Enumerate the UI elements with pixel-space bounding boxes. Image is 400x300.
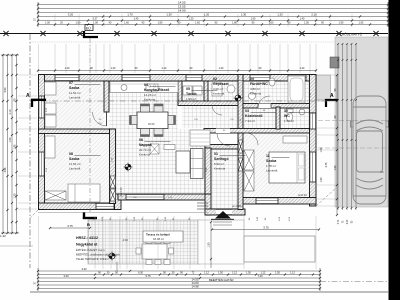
svg-text:1.20: 1.20 <box>65 67 70 70</box>
svg-text:14.98: 14.98 <box>192 284 199 288</box>
fence post x=339 <box>336 31 341 36</box>
svg-text:7.34 m²: 7.34 m² <box>245 119 255 123</box>
armchair living xbox <box>150 144 159 154</box>
top dim line5 ticks/numbers <box>87 19 89 21</box>
dining chairs top <box>141 104 150 112</box>
svg-text:1.78 m²: 1.78 m² <box>266 164 276 168</box>
svg-text:1.50: 1.50 <box>13 193 16 198</box>
fence post x=302 <box>299 31 304 36</box>
floor bath tiles <box>243 81 309 103</box>
svg-text:1.32: 1.32 <box>0 234 6 238</box>
svg-text:1.30: 1.30 <box>241 12 247 16</box>
svg-text:±0.00: ±0.00 <box>148 122 155 126</box>
extension lines bottom yard <box>38 216 40 269</box>
window top wall bath2 <box>288 75 306 82</box>
window bottom wall room08 <box>96 203 114 210</box>
front patio outline rect <box>244 236 315 262</box>
svg-text:Kerámia: Kerámia <box>139 153 151 157</box>
svg-text:1.00: 1.00 <box>93 21 98 24</box>
svg-text:3.75: 3.75 <box>325 162 328 167</box>
svg-text:1.30: 1.30 <box>166 12 172 16</box>
wall room07/room08 horizontal <box>39 129 110 134</box>
svg-text:Terasz és belépő: Terasz és belépő <box>146 233 170 237</box>
svg-text:5.60: 5.60 <box>4 87 7 92</box>
svg-text:3.06 m²: 3.06 m² <box>213 87 223 91</box>
left dimension vertical lines <box>2 55 4 233</box>
svg-text:pm0.00: pm0.00 <box>298 193 307 197</box>
wall room08/living vertical with insulation <box>110 129 116 204</box>
svg-text:3.20: 3.20 <box>68 12 74 16</box>
svg-text:11.52 m²: 11.52 m² <box>69 91 81 95</box>
sofa living <box>191 149 204 179</box>
svg-text:5.27: 5.27 <box>93 17 98 20</box>
window living terrace door <box>126 194 164 200</box>
bath wc toilet <box>269 78 275 86</box>
wall under taroio+gepeszet horizontal <box>178 101 242 106</box>
eave line below bottom wall <box>38 212 208 214</box>
svg-text:1.50 m²: 1.50 m² <box>284 119 294 123</box>
driveway dim chains verticals <box>337 44 339 210</box>
window top wall bath <box>250 75 270 82</box>
svg-text:2.10: 2.10 <box>9 109 12 114</box>
svg-text:1.90: 1.90 <box>339 21 344 24</box>
svg-text:-0.02: -0.02 <box>122 238 128 242</box>
terrace table <box>142 244 167 259</box>
dining chair right <box>168 116 176 125</box>
wardrobe room08 xbox <box>45 191 66 200</box>
boiler gepeszet <box>212 83 222 96</box>
floor corridor tiles <box>182 105 309 128</box>
floor living tiles <box>115 129 205 194</box>
window left wall room08 <box>39 152 45 176</box>
benchmark circle room08 <box>125 164 131 170</box>
wall pier bottom step <box>115 194 122 210</box>
svg-text:4.80 m²: 4.80 m² <box>250 87 260 91</box>
svg-text:1.40: 1.40 <box>134 17 139 20</box>
svg-text:1.20: 1.20 <box>111 67 116 70</box>
svg-text:A: A <box>330 93 334 99</box>
wall szelfogo top horizontal <box>205 145 238 150</box>
wall szelfogo/room11 vertical <box>238 133 243 210</box>
dim line left terrace 3.75 <box>50 227 90 229</box>
vert dim at walkway <box>210 222 212 268</box>
extension lines top yard <box>38 44 40 73</box>
svg-text:06: 06 <box>139 138 143 142</box>
wc toilet <box>286 109 293 113</box>
fence post x=117 <box>114 31 119 36</box>
top dim line4 ticks/numbers <box>102 15 104 17</box>
svg-text:Laminált: Laminált <box>69 96 81 100</box>
bottom road line <box>30 291 388 293</box>
bath sink <box>249 93 256 100</box>
window left wall room07 <box>39 96 45 118</box>
svg-text:3.66: 3.66 <box>4 167 7 172</box>
svg-text:20.70 m²: 20.70 m² <box>139 148 151 152</box>
diagonal dashed left corner <box>30 210 38 218</box>
floor room 08 parquet <box>45 134 110 204</box>
svg-text:WC: WC <box>284 114 290 118</box>
svg-text:HRSZ.: 431/2: HRSZ.: 431/2 <box>76 236 98 240</box>
wall exterior top <box>39 75 317 82</box>
entry door opening <box>216 209 232 215</box>
dotted extension line below fence <box>30 41 335 43</box>
section line B-B dashdot <box>89 38 91 212</box>
kitchen counter <box>110 82 178 93</box>
leader line from text <box>116 262 118 271</box>
svg-text:1.40: 1.40 <box>300 17 305 20</box>
wall exterior bottom left <box>39 203 121 210</box>
svg-text:05: 05 <box>186 87 190 91</box>
fence post x=228 <box>225 31 230 36</box>
kitchen stove <box>146 84 158 91</box>
svg-text:Nappali: Nappali <box>139 143 152 147</box>
coffee table living <box>176 151 190 173</box>
svg-text:Konyha-Étkező: Konyha-Étkező <box>144 87 169 92</box>
wall corridor/wc vertical <box>276 107 280 129</box>
svg-text:1.00: 1.00 <box>45 21 50 24</box>
closet room11 xboxes <box>244 150 254 170</box>
wall living front <box>118 194 208 200</box>
floor szelfogo tiles <box>211 148 238 209</box>
xbox insulation room11wall a <box>238 140 243 153</box>
svg-text:1.12: 1.12 <box>290 271 295 274</box>
svg-text:07: 07 <box>69 81 73 85</box>
kitchen island block <box>190 130 210 146</box>
svg-text:Tároló: Tároló <box>186 92 197 96</box>
window top wall room07 <box>55 75 79 82</box>
svg-text:2.10: 2.10 <box>311 12 317 16</box>
desk room07 <box>45 82 57 95</box>
top dim left terminator <box>37 2 39 27</box>
door arc corridor-szelfogo <box>217 133 230 146</box>
wardrobe room07 <box>45 115 56 127</box>
svg-text:1.50: 1.50 <box>275 271 280 274</box>
wall living/szelfogo vertical upper <box>205 148 211 194</box>
dining chairs bottom <box>141 129 150 137</box>
svg-text:Laminált: Laminált <box>69 167 81 171</box>
fence post x=265 <box>262 31 267 36</box>
svg-text:Kerámia: Kerámia <box>250 92 262 96</box>
svg-text:Fürdő+WC: Fürdő+WC <box>250 82 268 86</box>
svg-text:11.52 m²: 11.52 m² <box>69 162 81 166</box>
svg-text:5.75: 5.75 <box>145 274 151 278</box>
svg-text:10: 10 <box>284 109 288 113</box>
svg-text:Szoba: Szoba <box>266 159 276 163</box>
svg-text:1.80: 1.80 <box>158 21 163 24</box>
svg-text:1.20: 1.20 <box>219 67 224 70</box>
xbox insulation wall08 a <box>110 176 116 188</box>
svg-text:Szoba: Szoba <box>69 86 79 90</box>
washer dryer taroio <box>183 86 192 95</box>
svg-text:2.20: 2.20 <box>347 219 349 224</box>
extension lines left yard <box>18 74 37 76</box>
svg-text:1.50: 1.50 <box>320 177 323 182</box>
bottom dim numbers line2 <box>94 273 96 275</box>
window top wall kitchen <box>122 75 150 82</box>
heat pump unit <box>330 57 339 68</box>
svg-text:Szélfogó: Szélfogó <box>214 157 229 161</box>
fence post x=6 <box>3 31 8 36</box>
svg-text:08: 08 <box>69 152 73 156</box>
wall bath/corridor horizontal <box>243 104 310 109</box>
bottom dim numbers line3 <box>94 277 96 279</box>
svg-text:1.50: 1.50 <box>304 21 309 24</box>
wall szelfogo bottom with entry <box>205 209 245 215</box>
svg-text:1.20: 1.20 <box>277 12 283 16</box>
door arc bath <box>258 96 270 108</box>
bottom dashdot extension <box>320 281 388 283</box>
svg-text:Közlekedő: Közlekedő <box>245 114 263 118</box>
top dim line5 extra ticks <box>121 19 123 21</box>
wall corridor/south horizontal <box>204 129 310 134</box>
fence line with x marks <box>0 33 388 35</box>
svg-text:3.75: 3.75 <box>67 224 73 228</box>
wall room07/kitchen vertical <box>104 81 109 112</box>
window right wall wc <box>310 113 317 129</box>
dining chair left <box>130 116 138 125</box>
terrace label box <box>143 231 183 242</box>
wc sink <box>299 109 305 115</box>
extension lines top stack <box>54 14 56 27</box>
section line A-A dashdot <box>30 100 330 102</box>
section marker A left <box>32 100 46 107</box>
svg-text:Laminált: Laminált <box>266 169 278 173</box>
wall exterior bottom right <box>243 198 316 205</box>
svg-text:TELEK TERÜLETE: 1034m²: TELEK TERÜLETE: 1034m² <box>76 257 109 261</box>
window bottom wall room11 <box>256 198 278 205</box>
svg-text:HŐSZIVATYÚ: HŐSZIVATYÚ <box>342 32 363 37</box>
car top view <box>351 96 389 204</box>
fence post x=376 <box>373 31 378 36</box>
svg-text:pm 0.00: pm 0.00 <box>119 187 123 197</box>
floor taroio tiles <box>182 85 204 101</box>
svg-text:Kerámia: Kerámia <box>213 92 225 96</box>
section marker B top <box>84 31 98 37</box>
wall szelfogo left lower <box>205 194 211 215</box>
benchmark circle corridor <box>235 95 241 101</box>
svg-text:1.50: 1.50 <box>246 271 251 274</box>
right dim chain x337 <box>336 75 338 215</box>
svg-text:3.20: 3.20 <box>63 274 69 278</box>
svg-text:1.30: 1.30 <box>189 17 194 20</box>
svg-text:14.26 m²: 14.26 m² <box>144 93 156 97</box>
svg-text:1.50: 1.50 <box>334 165 337 170</box>
window right wall room11 <box>310 152 317 182</box>
svg-text:1.20: 1.20 <box>300 67 305 70</box>
desk room08 <box>45 136 55 158</box>
terrace tile grid <box>88 220 200 264</box>
yard line left <box>0 245 33 247</box>
bottom dim numbers line1 <box>129 270 131 272</box>
section marker B bottom <box>83 212 85 219</box>
heat pump pad gray <box>316 75 331 100</box>
wardrobe room11 top <box>283 136 307 143</box>
dim line above top wall <box>38 70 316 72</box>
wall taroio/gepeszet vertical <box>204 81 208 101</box>
svg-text:04: 04 <box>144 83 148 87</box>
svg-text:1.60: 1.60 <box>269 21 274 24</box>
svg-text:1.50: 1.50 <box>208 242 211 247</box>
bottom dimension lines <box>38 270 320 272</box>
section marker A right <box>326 100 338 107</box>
door gap corridor-szelfogo <box>216 129 230 134</box>
svg-text:B: B <box>87 222 90 227</box>
door arc gepeszet <box>212 105 222 115</box>
benchmark circle terrace <box>109 253 115 259</box>
svg-text:2.10: 2.10 <box>162 67 167 70</box>
floor gepeszet tiles <box>210 81 238 101</box>
svg-text:1.60: 1.60 <box>251 17 256 20</box>
fence post x=191 <box>188 31 193 36</box>
wall exterior left <box>39 75 45 210</box>
gas meter box <box>85 25 93 31</box>
top dimension lines <box>38 4 388 6</box>
svg-text:Szoba: Szoba <box>69 157 79 161</box>
floor room 11 parquet <box>243 133 309 198</box>
door gap bath <box>258 104 271 109</box>
driveway crossline dashed upper <box>318 120 390 122</box>
svg-text:1.80: 1.80 <box>232 21 237 24</box>
svg-text:1.12: 1.12 <box>204 271 209 274</box>
floor room 07 parquet <box>45 81 105 129</box>
svg-text:01: 01 <box>214 152 218 156</box>
wall kitchen/taroio vertical <box>178 81 182 105</box>
svg-text:Gépészet: Gépészet <box>213 82 229 86</box>
dining table <box>137 112 168 129</box>
svg-text:1.05: 1.05 <box>359 21 364 24</box>
roof overhang diagonal dashed <box>316 188 336 206</box>
bed room08 <box>68 184 100 202</box>
svg-text:03: 03 <box>245 109 249 113</box>
svg-text:4.32: 4.32 <box>81 267 87 271</box>
svg-text:1.70: 1.70 <box>127 12 133 16</box>
svg-text:1.60: 1.60 <box>195 21 200 24</box>
bed room11 <box>269 152 305 183</box>
svg-text:Kerámia: Kerámia <box>214 167 226 171</box>
wall exterior right <box>310 75 317 207</box>
svg-text:1.50: 1.50 <box>9 137 12 142</box>
svg-text:5.90 m²: 5.90 m² <box>214 162 224 166</box>
svg-text:09: 09 <box>250 77 254 81</box>
wall gepeszet/bath vertical <box>238 75 243 132</box>
property dashed line left vertical <box>29 34 31 268</box>
xbox insulation wall08 b <box>110 189 116 201</box>
bathtub <box>288 76 305 103</box>
kitchen sink <box>121 85 127 91</box>
svg-text:pm 0.00: pm 0.00 <box>232 204 242 208</box>
floor kitchen tiles <box>109 81 178 129</box>
door arc room11 <box>246 133 258 145</box>
extension lines right yard <box>317 74 336 76</box>
svg-text:1.60: 1.60 <box>124 21 129 24</box>
svg-text:7.20: 7.20 <box>257 274 263 278</box>
window top wall taroio <box>186 75 202 82</box>
steps living to szelfogo <box>197 202 208 204</box>
svg-text:BEÉPÍTÉSI HATÁR: BEÉPÍTÉSI HATÁR <box>209 277 234 282</box>
svg-text:EÜ: EÜ <box>86 26 91 30</box>
svg-text:02: 02 <box>213 77 217 81</box>
svg-text:1.80: 1.80 <box>76 21 81 24</box>
svg-text:1.50: 1.50 <box>320 147 323 152</box>
driveway centerline dashed <box>318 147 390 149</box>
svg-text:3.70: 3.70 <box>338 219 340 224</box>
fence post x=80 <box>77 31 82 36</box>
dim line terrace 3.75 <box>212 229 319 231</box>
walkway white rect <box>198 220 244 264</box>
black scan border right <box>389 0 400 300</box>
svg-text:1.20: 1.20 <box>204 12 210 16</box>
entrance steps <box>213 221 232 223</box>
terrace chairs <box>146 239 152 244</box>
svg-text:6.30: 6.30 <box>138 271 143 274</box>
svg-text:3.75: 3.75 <box>263 225 269 229</box>
fence post x=154 <box>151 31 156 36</box>
svg-text:90: 90 <box>13 98 16 101</box>
top dim line6 ticks/numbers <box>54 23 56 25</box>
svg-text:Kerámia: Kerámia <box>144 98 156 102</box>
svg-text:14.00: 14.00 <box>178 9 186 13</box>
fence post x=43 <box>40 31 45 36</box>
entrance triangle <box>215 211 231 219</box>
driveway gray area <box>335 37 388 207</box>
svg-text:1.99 m²: 1.99 m² <box>186 97 196 101</box>
svg-text:1.12: 1.12 <box>232 271 237 274</box>
svg-text:11: 11 <box>266 154 270 158</box>
tv cabinet living <box>164 145 175 150</box>
svg-text:Nagykátai út: Nagykátai út <box>76 243 98 247</box>
door arc room07 <box>93 112 107 126</box>
svg-text:1.95: 1.95 <box>13 144 16 149</box>
svg-text:1.50: 1.50 <box>218 271 223 274</box>
svg-text:18.08 m²: 18.08 m² <box>153 237 164 241</box>
xbox insulation room11wall b <box>238 158 243 171</box>
